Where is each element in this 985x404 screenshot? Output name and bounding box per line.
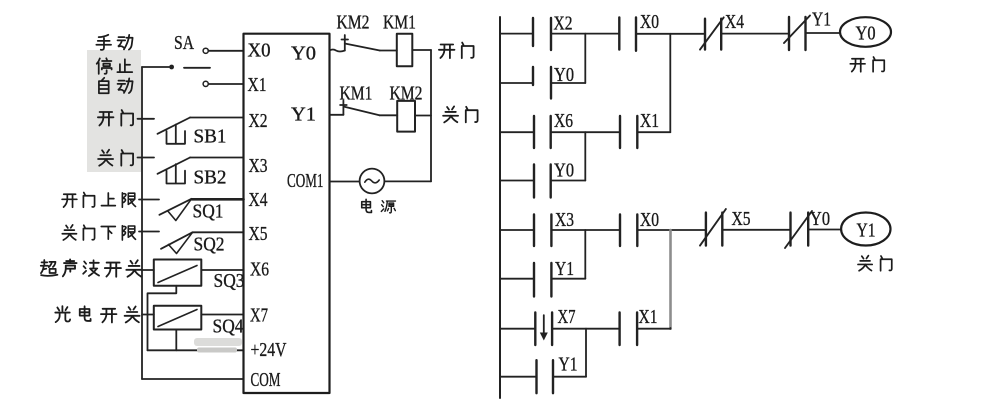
label 关门下限 (close lower limit) xyxy=(62,225,135,240)
ladder left power rail xyxy=(499,17,501,398)
branch wire Y0 (rung1) xyxy=(500,82,533,84)
contact X2 xyxy=(533,18,551,50)
junction vertical rung1-rung2 xyxy=(669,34,671,132)
svg-text:X1: X1 xyxy=(248,74,267,96)
selector contact circle X0 xyxy=(203,48,208,53)
svg-text:KM1: KM1 xyxy=(383,12,416,34)
label 关门 (close door) xyxy=(98,150,133,166)
label 停止 (stop) xyxy=(97,58,133,74)
selector switch SA label xyxy=(174,32,194,54)
svg-text:SQ3: SQ3 xyxy=(214,270,245,292)
contact Y1 (rung4 branch) xyxy=(537,360,554,393)
wire power source to return rail xyxy=(384,180,431,182)
pin X2 xyxy=(249,110,268,132)
svg-text:KM2: KM2 xyxy=(390,83,423,105)
branch vertical (rung3) xyxy=(584,230,586,279)
svg-text:X0: X0 xyxy=(640,11,659,33)
branch wire to vertical (rung2) xyxy=(551,180,586,182)
label SB2 xyxy=(194,167,227,189)
label SQ3 xyxy=(214,270,245,292)
wire SQ1 to X4 pin xyxy=(192,198,244,201)
pin X5 xyxy=(249,223,268,245)
label 开门 (open door) xyxy=(98,110,133,126)
svg-text:X3: X3 xyxy=(249,155,268,177)
left common bus vertical xyxy=(141,67,143,379)
svg-text:Y0: Y0 xyxy=(291,43,316,65)
svg-text:SQ1: SQ1 xyxy=(193,201,224,223)
svg-text:X6: X6 xyxy=(250,259,269,281)
pin X0 xyxy=(248,40,271,62)
NC contact Y1 (rung1) xyxy=(784,16,810,51)
NC contact Y0 (rung3) xyxy=(785,211,812,248)
wire X1 to junction xyxy=(637,131,670,133)
wire X0 to X4 xyxy=(636,33,705,35)
pin COM xyxy=(251,369,281,391)
NC contact X5 xyxy=(700,209,726,246)
limit switch SQ1 blade xyxy=(159,199,191,215)
limit switch SQ1 roller xyxy=(168,199,192,221)
branch wire Y1 (rung3) xyxy=(500,278,534,280)
label Y1 (rung4 branch) xyxy=(559,354,578,376)
label Y0 (rung3 NC) xyxy=(810,208,830,230)
svg-text:X2: X2 xyxy=(554,13,573,35)
SQ3 bottom tap to inner bus xyxy=(148,286,177,351)
contact X1 (rung2) xyxy=(620,116,637,148)
selector switch SA blade xyxy=(184,67,210,69)
contact X6 xyxy=(534,116,551,148)
svg-text:Y1: Y1 xyxy=(857,220,876,242)
svg-text:SB2: SB2 xyxy=(194,167,227,189)
label KM2 (top contact) xyxy=(337,12,370,34)
label X0 (rung1) xyxy=(640,11,659,33)
svg-text:X7: X7 xyxy=(250,305,268,327)
falling edge arrow xyxy=(540,315,548,340)
label SQ4 xyxy=(213,316,244,338)
wire X4 to Y1nc xyxy=(721,33,789,35)
pin +24V xyxy=(251,339,287,361)
label Y1 (rung3 branch) xyxy=(555,258,574,280)
pushbutton SB1 operator xyxy=(167,125,186,144)
contact KM1 fixed tick xyxy=(340,101,347,115)
contact Y0 (rung2 branch) xyxy=(534,165,551,198)
label X3 xyxy=(555,209,574,231)
contact X3 xyxy=(534,215,551,247)
label Y1 (coil) xyxy=(857,220,876,242)
svg-text:COM1: COM1 xyxy=(287,170,324,192)
pin X6 xyxy=(250,259,269,281)
label KM1 (2nd contact) xyxy=(340,83,373,105)
label 关门 (close) at KM2 xyxy=(443,106,477,122)
label X2 xyxy=(554,13,573,35)
watermark blob xyxy=(194,338,242,353)
wire X6 to X1 xyxy=(551,131,620,133)
power source circle xyxy=(360,169,385,194)
label SB1 xyxy=(194,126,227,148)
svg-text:KM2: KM2 xyxy=(337,12,370,34)
label Y0 (rung1 branch) xyxy=(554,64,574,86)
pin X1 xyxy=(248,74,267,96)
limit switch SQ2 roller xyxy=(169,232,193,253)
label 手动 (manual) xyxy=(96,35,132,50)
svg-text:X6: X6 xyxy=(554,110,573,132)
svg-text:Y1: Y1 xyxy=(291,104,316,126)
branch wire to junction xyxy=(551,82,585,84)
branch vertical (rung1) xyxy=(584,34,586,83)
wire X2 to X0 xyxy=(551,33,619,35)
limit switch SQ2 blade xyxy=(161,232,193,249)
contact Y1 (rung3 branch) xyxy=(534,263,551,297)
pin X3 xyxy=(249,155,268,177)
svg-text:X7: X7 xyxy=(558,306,576,328)
svg-text:SA: SA xyxy=(174,32,194,54)
svg-text:Y1: Y1 xyxy=(559,354,578,376)
coil Y1 xyxy=(841,213,890,246)
coil KM1 box xyxy=(397,34,413,67)
contact X1 (rung4) xyxy=(620,313,638,346)
scan shading behind left labels xyxy=(87,50,141,172)
pushbutton SB2 blade xyxy=(158,158,191,174)
wire X0 to X5 xyxy=(637,229,706,231)
wire X3 to X0 xyxy=(551,229,620,231)
svg-text:X4: X4 xyxy=(725,11,744,33)
contact KM2 blade xyxy=(345,44,380,51)
wire SA contact to X0 pin xyxy=(208,50,243,52)
label X4 xyxy=(725,11,744,33)
stub 开门 row xyxy=(138,118,155,120)
svg-text:X2: X2 xyxy=(249,110,268,132)
branch wire to vertical (rung3) xyxy=(551,278,585,280)
label 关门 (ladder) xyxy=(858,256,892,271)
svg-text:SQ4: SQ4 xyxy=(213,316,244,338)
contact X0 (rung3) xyxy=(620,215,637,247)
contact KM1 blade xyxy=(343,107,379,116)
label X7 xyxy=(558,306,576,328)
branch vertical (rung2) xyxy=(584,132,586,180)
wire Y0 output xyxy=(330,50,345,52)
return rail vertical xyxy=(430,50,432,181)
svg-text:X0: X0 xyxy=(248,40,271,62)
svg-text:Y0: Y0 xyxy=(856,23,876,45)
wire KM1 coil to return rail xyxy=(412,49,431,51)
label X5 xyxy=(732,208,751,230)
wire SQ3 to X6 pin xyxy=(201,269,243,271)
wire COM row xyxy=(142,378,244,380)
sensor SQ4 box xyxy=(154,306,202,330)
label Y0 (coil) xyxy=(856,23,876,45)
wire COM1 to power source xyxy=(330,181,360,183)
svg-text:X1: X1 xyxy=(639,306,658,328)
wire SA contact to X1 pin xyxy=(208,83,243,85)
coil Y0 xyxy=(840,17,891,47)
selector switch SA pivot dot xyxy=(169,65,174,70)
coil KM2 box xyxy=(397,101,415,132)
wire to Y0 coil xyxy=(806,32,841,34)
pin X4 xyxy=(249,189,268,211)
svg-text:KM1: KM1 xyxy=(340,83,373,105)
label 开门上限 (open upper limit) xyxy=(62,192,135,207)
label SQ1 xyxy=(193,201,224,223)
label X1 (rung4) xyxy=(639,306,658,328)
stub 关门 row xyxy=(138,157,155,159)
stub 超声波开关 row xyxy=(142,269,154,271)
wire X5 to Y0nc xyxy=(722,229,790,231)
wire SB2 to X3 pin xyxy=(190,157,244,159)
wire +24V row xyxy=(148,349,244,351)
selector contact circle X1 xyxy=(203,81,208,86)
wire blade to KM1 coil xyxy=(380,50,397,52)
selector switch SA pole wire xyxy=(142,66,169,68)
label X6 xyxy=(554,110,573,132)
wire X1 to junction (rung4) xyxy=(637,327,670,330)
PLC box xyxy=(244,34,330,393)
contact KM2 fixed tick xyxy=(342,35,349,51)
stub 关门下限 row xyxy=(139,231,159,233)
svg-text:COM: COM xyxy=(251,369,281,391)
branch wire Y1 (rung4) xyxy=(500,376,537,378)
svg-text:X4: X4 xyxy=(249,189,268,211)
wire blade to KM2 coil xyxy=(379,114,397,116)
svg-text:X5: X5 xyxy=(732,208,751,230)
wire SQ4 to X7 pin xyxy=(201,314,243,316)
pin Y1 xyxy=(291,104,316,126)
svg-text:X1: X1 xyxy=(640,110,659,132)
junction vertical rung3-rung4 (faded) xyxy=(669,230,672,329)
pushbutton SB1 blade xyxy=(158,118,191,134)
svg-text:X5: X5 xyxy=(249,223,268,245)
svg-text:SB1: SB1 xyxy=(194,126,227,148)
svg-text:Y0: Y0 xyxy=(810,208,830,230)
svg-text:Y1: Y1 xyxy=(812,9,831,31)
branch vertical (rung4) xyxy=(585,329,587,377)
rung1 wire rail to X2 xyxy=(500,33,533,35)
pin COM1 xyxy=(287,170,324,192)
contact X0 (rung1) xyxy=(619,17,636,50)
sensor SQ3 diagonal xyxy=(158,266,197,283)
branch wire to vertical (rung4) xyxy=(553,376,586,378)
sensor SQ3 box xyxy=(154,260,202,286)
contact Y0 (rung1 branch) xyxy=(533,67,551,99)
power source tilde xyxy=(365,179,379,183)
svg-text:+24V: +24V xyxy=(251,339,287,361)
rung4 wire rail to X7 xyxy=(500,328,535,330)
label Y1 (rung1 NC) xyxy=(812,9,831,31)
label 开门 (open) at KM1 xyxy=(439,43,474,59)
label Y0 (rung2 branch) xyxy=(554,160,574,182)
branch wire Y0 (rung2) xyxy=(500,180,534,182)
wire KM2 coil to return rail xyxy=(415,115,431,117)
pin Y0 xyxy=(291,43,316,65)
wire X7 to X1 xyxy=(552,328,620,330)
rung2 wire rail to X6 xyxy=(500,131,534,133)
label KM1 (coil) xyxy=(383,12,416,34)
rung3 wire rail to X3 xyxy=(500,229,534,231)
wire SB1 to X2 pin xyxy=(190,117,244,119)
label 电源 (power) xyxy=(362,199,396,212)
SQ4 bottom tap xyxy=(175,330,177,351)
svg-text:Y1: Y1 xyxy=(555,258,574,280)
svg-text:X3: X3 xyxy=(555,209,574,231)
svg-text:Y0: Y0 xyxy=(554,160,574,182)
label 光电开关 (photoelectric switch) xyxy=(55,306,139,322)
svg-text:SQ2: SQ2 xyxy=(194,234,225,256)
contact X7 falling-edge xyxy=(535,313,552,346)
label X0 (rung3) xyxy=(640,209,659,231)
label X1 (rung2) xyxy=(640,110,659,132)
pin X7 xyxy=(250,305,268,327)
pushbutton SB2 operator xyxy=(167,164,186,183)
label SQ2 xyxy=(194,234,225,256)
stub 开门上限 row xyxy=(139,199,159,201)
wire Y1 output xyxy=(330,114,344,116)
wire to Y1 coil xyxy=(808,229,841,231)
label 超声波开关 (ultrasonic switch) xyxy=(41,259,142,276)
label 自动 (auto) xyxy=(99,78,133,93)
wire SQ2 to X5 pin xyxy=(193,231,244,233)
label KM2 (coil) xyxy=(390,83,423,105)
NC contact X4 xyxy=(700,17,724,49)
sensor SQ4 diagonal xyxy=(158,310,197,327)
stub 光电开关 row xyxy=(142,314,154,316)
svg-text:X0: X0 xyxy=(640,209,659,231)
label 开门 (ladder) xyxy=(850,57,884,72)
